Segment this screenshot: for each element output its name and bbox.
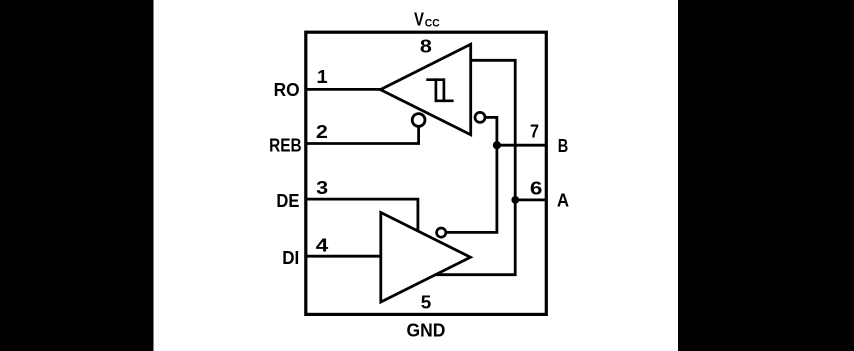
svg-text:5: 5 [421,293,432,313]
svg-text:3: 3 [316,178,328,198]
svg-text:GND: GND [407,321,446,341]
svg-text:RO: RO [274,80,300,100]
svg-text:REB: REB [269,136,302,156]
svg-text:CC: CC [425,17,440,29]
svg-text:8: 8 [420,37,432,57]
svg-text:B: B [558,136,569,156]
svg-text:7: 7 [530,122,539,142]
svg-text:DI: DI [282,248,299,268]
svg-text:DE: DE [276,191,299,211]
svg-text:2: 2 [316,122,328,142]
svg-text:V: V [414,9,424,29]
svg-text:1: 1 [317,67,328,87]
svg-text:A: A [557,191,569,211]
svg-text:6: 6 [530,178,543,198]
svg-text:4: 4 [316,236,329,256]
